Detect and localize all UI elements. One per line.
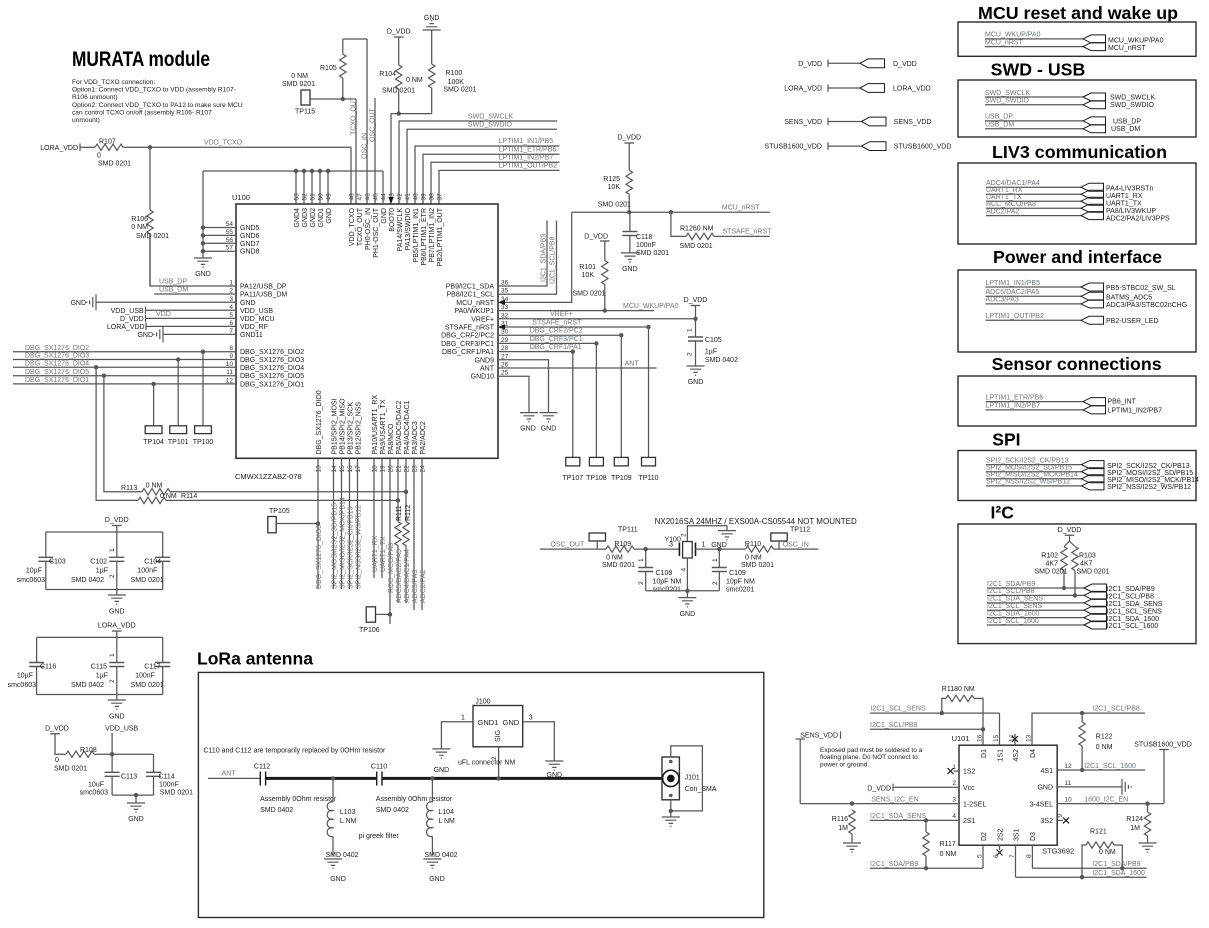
svg-text:SPI2_MOSI/I2S2_SD/PB15: SPI2_MOSI/I2S2_SD/PB15 — [332, 503, 339, 589]
pin 13 U101 I2C1_SCL/PB8 right — [1032, 713, 1145, 745]
test point TP109 — [620, 335, 622, 457]
svg-text:100nF: 100nF — [159, 782, 179, 789]
svg-text:C115: C115 — [91, 664, 107, 671]
svg-text:39: 39 — [421, 193, 428, 201]
svg-text:3: 3 — [952, 796, 956, 803]
ground GND (crystal) — [678, 598, 696, 607]
svg-text:4: 4 — [681, 568, 688, 572]
resistor R113 — [104, 376, 142, 492]
svg-text:VDD_USB: VDD_USB — [105, 726, 138, 733]
node TCXO_OUT — [341, 97, 345, 101]
svg-text:STSAFE_nRST: STSAFE_nRST — [722, 229, 772, 236]
svg-text:L103: L103 — [340, 809, 356, 816]
svg-text:GND: GND — [128, 816, 144, 823]
capacitor C105 — [695, 319, 697, 337]
svg-text:LPTIM1_IN2/PB7: LPTIM1_IN2/PB7 — [1108, 408, 1163, 415]
wire USB_DM pin2 — [154, 293, 236, 295]
svg-text:20: 20 — [388, 465, 395, 473]
svg-text:PA14/SWCLK: PA14/SWCLK — [397, 208, 404, 252]
svg-text:SENS_VDD: SENS_VDD — [894, 119, 932, 126]
svg-text:6: 6 — [993, 854, 1000, 858]
capacitor C117 — [162, 637, 164, 662]
box I2C — [958, 524, 1196, 644]
svg-text:GND7: GND7 — [240, 241, 260, 248]
svg-text:1M: 1M — [838, 825, 848, 832]
svg-text:SWD_SWCLK: SWD_SWCLK — [1110, 95, 1155, 102]
svg-text:GND: GND — [434, 767, 450, 774]
svg-text:USB_DM: USB_DM — [1111, 126, 1140, 133]
test point TP101 — [170, 426, 187, 434]
svg-text:0 NM: 0 NM — [160, 493, 177, 500]
svg-text:ADC5/DAC2/PA5: ADC5/DAC2/PA5 — [396, 549, 403, 603]
wire RF thick 2 — [382, 777, 662, 780]
svg-text:Option2: Connect VDD_TCXO to P: Option2: Connect VDD_TCXO to PA12 to mak… — [72, 102, 243, 109]
capacitor C114 — [153, 754, 155, 772]
svg-text:SMD 0201: SMD 0201 — [282, 81, 315, 88]
svg-text:55: 55 — [226, 229, 234, 236]
wire J101 shield loop — [671, 746, 703, 811]
svg-text:DBG_SX1276_DIO3: DBG_SX1276_DIO3 — [240, 357, 304, 364]
connector J100 uFL — [473, 706, 523, 747]
svg-text:smc0603: smc0603 — [80, 790, 109, 797]
svg-text:LPTIM1_IN1/PB5: LPTIM1_IN1/PB5 — [986, 280, 1041, 287]
svg-text:TP104: TP104 — [143, 439, 164, 446]
svg-text:SENS_VDD: SENS_VDD — [784, 119, 822, 126]
svg-text:smc0603: smc0603 — [8, 682, 37, 689]
ground GND (bank3) — [127, 803, 145, 812]
ground GND (R124) — [1139, 843, 1157, 852]
capacitor C115 — [116, 637, 118, 662]
svg-text:LORA_VDD: LORA_VDD — [893, 86, 931, 93]
svg-text:SPI2_NSS/I2S2_WS/PB12: SPI2_NSS/I2S2_WS/PB12 — [986, 479, 1070, 486]
svg-text:2: 2 — [681, 533, 688, 537]
resistor R108 — [55, 734, 66, 754]
svg-text:PH1-OSC_OUT: PH1-OSC_OUT — [373, 207, 380, 258]
svg-text:VDD: VDD — [156, 311, 171, 318]
svg-text:MCU_WKUP/PA0: MCU_WKUP/PA0 — [623, 303, 679, 310]
ground GND (J101) — [670, 811, 672, 817]
svg-text:4S2: 4S2 — [1013, 749, 1020, 762]
svg-text:I2C1_SDA/PB9: I2C1_SDA/PB9 — [1107, 586, 1155, 593]
box LIV3 communication — [958, 163, 1196, 244]
svg-text:R106: R106 — [131, 216, 148, 223]
svg-text:SWD_SWDIO: SWD_SWDIO — [985, 98, 1030, 105]
svg-text:PB15/SPI2_MOSI: PB15/SPI2_MOSI — [331, 398, 338, 454]
wire LPTIM1_ETR/PB6 stub — [423, 154, 560, 204]
svg-text:Exposed pad must be soldered t: Exposed pad must be soldered to a — [820, 747, 923, 754]
svg-text:LPTIM1_IN2/PB7: LPTIM1_IN2/PB7 — [986, 403, 1041, 410]
svg-text:D_VDD: D_VDD — [867, 785, 891, 792]
wire cap bank3 bottom rail — [112, 794, 153, 796]
svg-text:UART1_RX: UART1_RX — [986, 187, 1023, 194]
svg-text:R104: R104 — [379, 71, 396, 78]
svg-text:LPTIM1_ETR/PB6: LPTIM1_ETR/PB6 — [986, 394, 1044, 401]
svg-text:TP111: TP111 — [618, 527, 638, 534]
wire crystal pin4 to rail — [686, 558, 688, 591]
svg-text:38: 38 — [429, 193, 436, 201]
capacitor C113 — [111, 754, 113, 772]
svg-text:J100: J100 — [475, 699, 490, 706]
svg-text:PB13/SPI2_SCK: PB13/SPI2_SCK — [347, 402, 354, 455]
svg-text:LPTIM1_OUT/PB2: LPTIM1_OUT/PB2 — [986, 313, 1044, 320]
ground GND (pin25) — [520, 413, 538, 422]
svg-text:MCU reset and wake up: MCU reset and wake up — [978, 3, 1178, 23]
svg-text:OSC_IN: OSC_IN — [783, 541, 809, 548]
svg-text:I2C1_SDA/PB9: I2C1_SDA/PB9 — [987, 581, 1035, 588]
svg-text:C110: C110 — [371, 763, 387, 770]
svg-text:DBG_CRF2/PC2: DBG_CRF2/PC2 — [530, 328, 583, 335]
test point TP110 — [648, 327, 650, 457]
svg-text:15: 15 — [339, 465, 346, 473]
svg-text:DBG_CRF3/PC1: DBG_CRF3/PC1 — [441, 341, 494, 348]
wire DBG_SX1276_DIO3 — [13, 359, 236, 361]
svg-text:24: 24 — [420, 465, 427, 473]
svg-text:0 NM: 0 NM — [745, 555, 762, 562]
svg-text:SMD 0201: SMD 0201 — [54, 766, 87, 773]
svg-text:MCU_nRST: MCU_nRST — [985, 39, 1023, 46]
wire I2C1_SCL/PB8 stub (pin35) — [498, 221, 557, 295]
ground GND (bank1) — [108, 595, 126, 604]
svg-text:MCU_WKUP/PA0: MCU_WKUP/PA0 — [985, 32, 1041, 39]
ic U101 STG3692 — [959, 745, 1057, 845]
svg-text:3S2: 3S2 — [1041, 818, 1054, 825]
svg-text:100nF: 100nF — [137, 567, 157, 574]
svg-text:GND4: GND4 — [294, 208, 301, 228]
svg-text:DBG_CRF1/PA1: DBG_CRF1/PA1 — [442, 349, 494, 356]
wire crystal pin2 to GND — [687, 526, 727, 542]
wire cap bank1 bottom rail — [46, 589, 163, 591]
svg-text:R114: R114 — [181, 493, 197, 500]
svg-text:BATMS_ADC5: BATMS_ADC5 — [1106, 295, 1152, 302]
svg-text:Option1: Connect VDD_TCXO to V: Option1: Connect VDD_TCXO to VDD (assemb… — [72, 87, 236, 94]
svg-text:BOOT0: BOOT0 — [389, 208, 396, 232]
svg-text:C104: C104 — [144, 559, 161, 566]
ground GND (J100 pin1) — [432, 749, 450, 758]
svg-text:PB8/I2C1_SCL: PB8/I2C1_SCL — [447, 292, 495, 299]
wire pin46 OSC_IN — [366, 39, 368, 204]
wire pin13 DBG_SX1276_DIO0 — [317, 458, 319, 589]
ground GND (C105) — [687, 366, 705, 375]
test point TP100 — [195, 426, 212, 434]
pin 6 U101 no-connect — [999, 845, 1001, 850]
svg-text:10µF: 10µF — [17, 673, 33, 680]
svg-text:D_VDD: D_VDD — [798, 61, 822, 68]
resistor R110 — [719, 548, 745, 550]
svg-text:VREF+: VREF+ — [550, 311, 573, 318]
svg-text:40: 40 — [413, 193, 420, 201]
svg-text:44: 44 — [381, 193, 388, 201]
svg-text:ADC4/DAC1/PA4: ADC4/DAC1/PA4 — [404, 549, 411, 603]
wire MCU_nRST horizontal — [572, 211, 770, 213]
svg-text:16: 16 — [347, 465, 354, 473]
test point TP111 — [589, 533, 605, 541]
wire R105 top to OSC_IN — [343, 38, 367, 40]
wire pin24 ADC2/PA2 — [421, 458, 423, 610]
svg-text:R125: R125 — [603, 176, 620, 183]
svg-text:GND: GND — [547, 772, 563, 779]
svg-text:VDD_RF: VDD_RF — [240, 324, 268, 331]
svg-text:MCU_nRST: MCU_nRST — [456, 300, 494, 307]
svg-text:SMD 0201: SMD 0201 — [160, 790, 193, 797]
svg-text:ADC3/PA3: ADC3/PA3 — [412, 570, 419, 603]
svg-text:PB7/LPTIM1_IN2: PB7/LPTIM1_IN2 — [429, 208, 436, 263]
svg-text:GND: GND — [109, 609, 125, 616]
svg-text:smc0201: smc0201 — [653, 586, 682, 593]
box LoRa antenna — [198, 672, 763, 917]
gnd bus top pins 49-53 — [203, 170, 383, 172]
svg-text:9: 9 — [1057, 814, 1064, 818]
svg-text:I2C1_SCL/PB8: I2C1_SCL/PB8 — [550, 236, 557, 284]
capacitor C118 — [629, 212, 631, 231]
svg-text:2: 2 — [638, 581, 645, 585]
svg-text:DBG_SX1276_DIO1: DBG_SX1276_DIO1 — [240, 381, 304, 388]
svg-text:SPI2_SCK/I2S2_CK/PB13: SPI2_SCK/I2S2_CK/PB13 — [348, 506, 355, 589]
svg-text:57: 57 — [226, 245, 234, 252]
svg-text:C103: C103 — [49, 559, 66, 566]
svg-text:unmount): unmount) — [72, 117, 100, 124]
svg-text:100nF: 100nF — [135, 673, 155, 680]
node R104 bottom — [397, 111, 401, 115]
svg-text:I2C1_SDA_SENS: I2C1_SDA_SENS — [987, 596, 1043, 603]
svg-text:GND3: GND3 — [302, 208, 309, 228]
svg-text:42: 42 — [397, 193, 404, 201]
svg-text:DBG_SX1276_DIO4: DBG_SX1276_DIO4 — [25, 361, 89, 368]
svg-text:ANT: ANT — [625, 360, 640, 367]
svg-text:10pF NM: 10pF NM — [726, 578, 755, 585]
svg-text:R103: R103 — [1079, 553, 1096, 560]
svg-text:MCU_nRST: MCU_nRST — [722, 204, 760, 211]
svg-text:SPI2_MOSI/I2S2_SD/PB15: SPI2_MOSI/I2S2_SD/PB15 — [1107, 470, 1193, 477]
resistor R107 — [95, 144, 123, 150]
wire DBG_SX1276_DIO1 — [13, 383, 236, 385]
svg-text:I²C: I²C — [991, 503, 1015, 523]
svg-text:SMD 0402: SMD 0402 — [325, 852, 358, 859]
svg-text:Vcc: Vcc — [963, 785, 975, 792]
svg-text:PB2/LPTIM1_OUT: PB2/LPTIM1_OUT — [437, 207, 444, 266]
svg-text:47: 47 — [357, 193, 364, 201]
svg-text:PB2-USER_LED: PB2-USER_LED — [1106, 318, 1159, 325]
pin 52 GND3 — [303, 171, 305, 204]
svg-text:I2C1_SDA/PB9: I2C1_SDA/PB9 — [870, 861, 918, 868]
svg-text:SPI2_MISO/I2S2_MCK/PB14: SPI2_MISO/I2S2_MCK/PB14 — [340, 497, 347, 589]
svg-text:For VDD_TCXO connection:: For VDD_TCXO connection: — [72, 79, 155, 86]
svg-text:SPI2_SCK/I2S2_CK/PB13: SPI2_SCK/I2S2_CK/PB13 — [1107, 463, 1190, 470]
svg-text:SWD_SWDIO: SWD_SWDIO — [468, 122, 513, 129]
svg-text:CMWX1ZZABZ-078: CMWX1ZZABZ-078 — [235, 472, 302, 481]
resistor R114 — [96, 367, 138, 500]
capacitor C116 — [36, 637, 38, 662]
svg-text:0 NM: 0 NM — [146, 483, 163, 490]
svg-text:SMD 0402: SMD 0402 — [424, 852, 457, 859]
svg-text:can control TCXO on/off (assem: can control TCXO on/off (assembly R106- … — [72, 109, 212, 116]
svg-text:GND: GND — [137, 332, 153, 339]
svg-text:1: 1 — [712, 558, 719, 562]
svg-text:10: 10 — [1064, 796, 1072, 803]
svg-text:1: 1 — [952, 764, 956, 771]
svg-text:I2C1_SCL/PB8: I2C1_SCL/PB8 — [1107, 594, 1155, 601]
resistor R111 (pin21) — [397, 458, 399, 521]
svg-text:STUSB1600_VDD: STUSB1600_VDD — [894, 144, 952, 151]
svg-text:I2C1_SCL_SENS: I2C1_SCL_SENS — [1107, 608, 1163, 615]
svg-text:OSC_OUT: OSC_OUT — [550, 541, 585, 548]
svg-text:STSAFE_nRST: STSAFE_nRST — [532, 319, 582, 326]
inductor L104 — [431, 778, 433, 802]
svg-text:R124: R124 — [1126, 816, 1143, 823]
svg-text:floating plane. Do NOT connect: floating plane. Do NOT connect to — [820, 754, 918, 761]
svg-text:I2C1_SCL/PB8: I2C1_SCL/PB8 — [1092, 706, 1140, 713]
svg-text:C113: C113 — [121, 774, 137, 781]
svg-text:D4: D4 — [1030, 749, 1037, 758]
svg-text:D_VDD: D_VDD — [684, 297, 708, 304]
svg-text:2S2: 2S2 — [997, 828, 1004, 841]
svg-text:PA11/USB_DM: PA11/USB_DM — [240, 292, 287, 299]
svg-text:GND: GND — [622, 266, 638, 273]
svg-text:PA4/ADC4/DAC1: PA4/ADC4/DAC1 — [404, 400, 411, 454]
svg-text:2S1: 2S1 — [963, 818, 976, 825]
wire LPTIM1_IN2/PB7 stub — [431, 162, 560, 204]
svg-text:SWD - USB: SWD - USB — [991, 59, 1086, 79]
resistor R100 — [431, 30, 433, 64]
svg-text:STUSB1600_VDD: STUSB1600_VDD — [764, 144, 822, 151]
svg-text:41: 41 — [405, 193, 412, 201]
wire SWD_SWCLK stub — [399, 121, 557, 204]
capacitor C110 — [377, 772, 382, 786]
svg-text:GND: GND — [330, 876, 346, 883]
wire cap bank2 bottom rail — [37, 694, 163, 696]
svg-text:ANT: ANT — [480, 366, 495, 373]
svg-text:LPTIM1_OUT/PB2: LPTIM1_OUT/PB2 — [499, 163, 557, 170]
svg-text:2: 2 — [109, 679, 116, 683]
svg-text:D_VDD: D_VDD — [45, 726, 69, 733]
svg-text:GND: GND — [541, 426, 557, 433]
wire cap bank1 top rail — [46, 531, 163, 533]
svg-text:C117: C117 — [144, 664, 160, 671]
ground GND (J100 pin3) — [545, 761, 563, 770]
node VDD_TCXO junction — [148, 145, 152, 149]
resistor R106 — [149, 147, 151, 210]
svg-text:RCC_MCO/PA8: RCC_MCO/PA8 — [388, 543, 395, 593]
wire TP115 to TCXO_OUT — [310, 98, 356, 100]
svg-text:STSAFE_nRST: STSAFE_nRST — [445, 325, 495, 332]
svg-text:PB14/SPI2_MISO: PB14/SPI2_MISO — [339, 398, 346, 455]
svg-text:NX2016SA 24MHZ / EXS00A-CS0554: NX2016SA 24MHZ / EXS00A-CS05544 NOT MOUN… — [655, 517, 857, 526]
svg-text:50: 50 — [318, 193, 325, 201]
svg-text:21: 21 — [396, 465, 403, 473]
pins 54-57 GND5-8 — [203, 227, 236, 229]
svg-text:1S1: 1S1 — [997, 749, 1004, 762]
svg-text:DBG_SX1276_DIO4: DBG_SX1276_DIO4 — [240, 365, 304, 372]
test point TP112 — [771, 533, 787, 541]
svg-text:SMD 0201: SMD 0201 — [741, 562, 774, 569]
svg-text:SWD_SWCLK: SWD_SWCLK — [468, 113, 513, 120]
svg-text:0: 0 — [55, 757, 59, 764]
svg-text:R1260 NM: R1260 NM — [680, 226, 714, 233]
svg-text:4K7: 4K7 — [1046, 561, 1059, 568]
svg-text:1: 1 — [638, 558, 645, 562]
svg-text:D_VDD: D_VDD — [105, 517, 129, 524]
svg-text:2: 2 — [109, 574, 116, 578]
svg-text:I2C1_SCL_1600: I2C1_SCL_1600 — [1084, 763, 1136, 770]
svg-text:C105: C105 — [705, 337, 722, 344]
svg-text:TP109: TP109 — [611, 475, 632, 482]
svg-text:VDD_MCU: VDD_MCU — [240, 316, 275, 323]
svg-text:PB9/I2C1_SDA: PB9/I2C1_SDA — [446, 284, 495, 291]
svg-text:MCU_nRST: MCU_nRST — [1108, 45, 1146, 52]
svg-text:GND: GND — [520, 426, 536, 433]
svg-text:PB12/SPI2_NSS: PB12/SPI2_NSS — [355, 402, 362, 455]
svg-text:SMD 0201: SMD 0201 — [98, 161, 131, 168]
capacitor C104 — [162, 532, 164, 557]
wire pin17 SPI2_NSS — [357, 458, 359, 589]
svg-text:I2C1_SCL_1600: I2C1_SCL_1600 — [1107, 623, 1159, 630]
svg-text:ADC2/PA2/LIV3PPS: ADC2/PA2/LIV3PPS — [1106, 216, 1170, 223]
svg-text:GND: GND — [429, 876, 445, 883]
wire DBG_CRF1/PA1 (pin28) — [498, 351, 573, 353]
svg-text:SMD 0201: SMD 0201 — [443, 87, 476, 94]
svg-text:SPI2_NSS/I2S2_WS/PB12: SPI2_NSS/I2S2_WS/PB12 — [1107, 484, 1191, 491]
svg-text:U101: U101 — [952, 734, 970, 743]
svg-text:D_VDD: D_VDD — [120, 316, 144, 323]
wire gnd bus left — [202, 171, 204, 258]
svg-text:MURATA module: MURATA module — [72, 48, 210, 71]
svg-text:R112: R112 — [405, 505, 412, 521]
svg-text:DBG_CRF2/PC2: DBG_CRF2/PC2 — [441, 333, 494, 340]
svg-text:PA13/SWDIO: PA13/SWDIO — [405, 207, 412, 250]
svg-text:R100: R100 — [446, 70, 463, 77]
box SPI — [958, 451, 1196, 501]
svg-text:18: 18 — [372, 465, 379, 473]
svg-text:PB5/LPTIM1_IN1: PB5/LPTIM1_IN1 — [413, 208, 420, 263]
svg-text:ADC2/PA2: ADC2/PA2 — [420, 570, 427, 603]
box Sensor connections — [958, 376, 1196, 426]
svg-text:I2C1_SCL_SENS: I2C1_SCL_SENS — [870, 706, 926, 713]
svg-text:54: 54 — [226, 221, 234, 228]
svg-text:PA3/ADC3: PA3/ADC3 — [412, 421, 419, 454]
wire pin15 SPI2_MISO — [341, 458, 343, 589]
svg-text:SMD 0201: SMD 0201 — [636, 250, 669, 257]
svg-text:I2C1_SCL/PB8: I2C1_SCL/PB8 — [870, 722, 918, 729]
resistor R125 — [628, 143, 630, 170]
svg-text:DBG_SX1276_DIO3: DBG_SX1276_DIO3 — [25, 353, 89, 360]
wire GND9 (pin27) — [498, 360, 549, 413]
svg-text:SPI2_MISO/I2S2_MCK/PB14: SPI2_MISO/I2S2_MCK/PB14 — [1107, 477, 1199, 484]
node OSC crystal left — [644, 547, 648, 551]
svg-text:L NM: L NM — [438, 818, 455, 825]
svg-text:ANT: ANT — [222, 771, 237, 778]
svg-text:15: 15 — [993, 734, 1000, 742]
pin 51 GND2 — [311, 171, 313, 204]
ground GND (crystal top) — [718, 531, 736, 540]
svg-text:DBG_SX1276_DIO2: DBG_SX1276_DIO2 — [240, 349, 304, 356]
svg-text:2: 2 — [712, 581, 719, 585]
svg-text:C112: C112 — [254, 763, 270, 770]
svg-text:I2C1_SDA_1600: I2C1_SDA_1600 — [987, 610, 1040, 617]
svg-text:PH0-OSC_IN: PH0-OSC_IN — [365, 208, 372, 250]
svg-text:R1180 NM: R1180 NM — [942, 686, 975, 693]
resistor R124 — [1147, 804, 1149, 812]
wire DBG_SX1276_DIO2 — [13, 351, 236, 353]
svg-text:OSC_OUT: OSC_OUT — [370, 107, 377, 142]
svg-text:17: 17 — [355, 465, 362, 473]
svg-text:PA9/USART1_TX: PA9/USART1_TX — [380, 399, 387, 454]
svg-text:1: 1 — [109, 653, 116, 657]
svg-text:14: 14 — [331, 465, 338, 473]
svg-text:USB_DP: USB_DP — [1113, 118, 1141, 125]
svg-text:PB5-STBC02_SW_SL: PB5-STBC02_SW_SL — [1106, 285, 1176, 292]
svg-text:UART1_TX: UART1_TX — [1106, 200, 1142, 207]
svg-text:UART1_TX: UART1_TX — [380, 536, 387, 572]
svg-text:DBG_SX1276_DIO5: DBG_SX1276_DIO5 — [240, 373, 304, 380]
